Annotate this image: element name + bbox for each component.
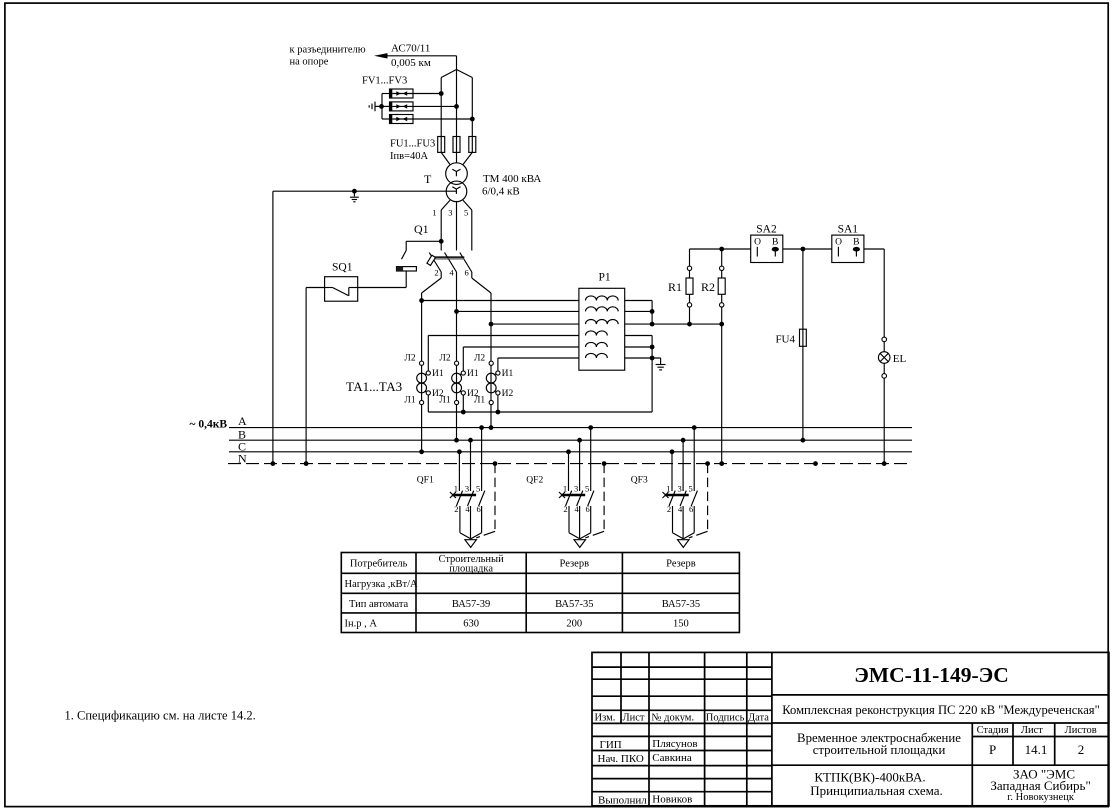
svg-text:QF3: QF3	[631, 476, 648, 486]
svg-text:Т: Т	[424, 172, 432, 186]
svg-text:R2: R2	[701, 280, 715, 294]
svg-text:Тип автомата: Тип автомата	[349, 599, 409, 610]
svg-text:SQ1: SQ1	[332, 262, 353, 274]
svg-text:на опоре: на опоре	[290, 57, 329, 68]
svg-text:Дата: Дата	[748, 713, 769, 724]
svg-text:5: 5	[464, 208, 468, 218]
svg-text:6: 6	[465, 268, 469, 278]
svg-text:200: 200	[566, 619, 582, 630]
svg-text:Резерв: Резерв	[666, 559, 696, 570]
svg-text:г. Новокузнецк: г. Новокузнецк	[1007, 792, 1075, 803]
svg-text:Iн.р , А: Iн.р , А	[345, 619, 378, 630]
svg-text:150: 150	[673, 619, 689, 630]
svg-text:14.1: 14.1	[1025, 742, 1048, 757]
svg-text:Резерв: Резерв	[560, 559, 590, 570]
svg-text:ЭМС-11-149-ЭС: ЭМС-11-149-ЭС	[854, 663, 1009, 687]
svg-text:Западная Сибирь": Западная Сибирь"	[990, 778, 1090, 793]
svg-text:Подпись: Подпись	[706, 713, 745, 724]
svg-text:Q1: Q1	[414, 222, 429, 236]
svg-text:Лист: Лист	[623, 713, 645, 724]
svg-text:QF1: QF1	[417, 476, 434, 486]
svg-text:FU1...FU3: FU1...FU3	[390, 139, 435, 150]
svg-text:FV1...FV3: FV1...FV3	[362, 76, 407, 87]
svg-text:ГИП: ГИП	[600, 739, 622, 751]
svg-text:QF2: QF2	[526, 476, 543, 486]
svg-text:Р1: Р1	[599, 272, 611, 284]
svg-text:Новиков: Новиков	[652, 793, 692, 805]
svg-text:Потребитель: Потребитель	[350, 559, 408, 570]
svg-text:А: А	[238, 414, 247, 428]
svg-text:1: 1	[432, 208, 436, 218]
svg-text:2: 2	[454, 504, 458, 514]
svg-text:площадка: площадка	[449, 563, 493, 574]
svg-text:3: 3	[465, 484, 469, 494]
svg-text:О: О	[754, 238, 761, 248]
svg-text:630: 630	[463, 619, 479, 630]
svg-text:SA1: SA1	[838, 223, 859, 235]
svg-text:Плясунов: Плясунов	[652, 738, 697, 750]
svg-text:Листов: Листов	[1065, 725, 1097, 736]
svg-text:4: 4	[465, 504, 470, 514]
svg-text:ВА57-35: ВА57-35	[555, 599, 593, 610]
svg-text:Iпв=40А: Iпв=40А	[390, 151, 428, 162]
svg-text:6/0,4 кВ: 6/0,4 кВ	[482, 186, 520, 198]
svg-text:6: 6	[476, 504, 480, 514]
svg-text:ВА57-39: ВА57-39	[452, 599, 490, 610]
svg-text:Выполнил: Выполнил	[598, 794, 647, 806]
svg-text:ВА57-35: ВА57-35	[662, 599, 700, 610]
svg-text:ТМ 400 кВА: ТМ 400 кВА	[483, 173, 541, 185]
svg-text:Комплексная реконструкция ПС 2: Комплексная реконструкция ПС 220 кВ "Меж…	[782, 703, 1100, 717]
svg-text:SA2: SA2	[756, 223, 777, 235]
svg-text:2: 2	[1078, 742, 1085, 757]
svg-text:Л2: Л2	[404, 354, 415, 364]
svg-text:Лист: Лист	[1021, 725, 1043, 736]
svg-text:~ 0,4кВ: ~ 0,4кВ	[190, 419, 228, 431]
svg-text:И1: И1	[432, 369, 444, 379]
svg-text:2: 2	[434, 268, 438, 278]
svg-text:Нагрузка ,кВт/А: Нагрузка ,кВт/А	[345, 579, 419, 590]
svg-text:4: 4	[449, 268, 454, 278]
svg-text:Изм.: Изм.	[595, 713, 616, 724]
svg-text:№ докум.: № докум.	[652, 713, 695, 724]
svg-text:Л1: Л1	[404, 396, 415, 406]
svg-text:FU4: FU4	[775, 334, 795, 346]
svg-text:EL: EL	[893, 353, 907, 365]
svg-text:Нач. ПКО: Нач. ПКО	[598, 753, 644, 765]
svg-text:1. Спецификацию см. на листе 1: 1. Спецификацию см. на листе 14.2.	[65, 709, 256, 723]
svg-text:АС70/11: АС70/11	[391, 43, 430, 55]
svg-text:Р: Р	[989, 742, 996, 757]
svg-text:R1: R1	[668, 280, 682, 294]
svg-text:5: 5	[476, 484, 480, 494]
svg-text:ТА1...ТА3: ТА1...ТА3	[346, 379, 402, 394]
svg-text:к разъединителю: к разъединителю	[290, 45, 366, 56]
svg-text:строительной площадки: строительной площадки	[813, 743, 946, 757]
svg-text:В: В	[772, 238, 778, 248]
svg-text:Принципиальная схема.: Принципиальная схема.	[810, 783, 943, 798]
svg-text:3: 3	[448, 208, 452, 218]
svg-text:Стадия: Стадия	[977, 725, 1009, 736]
svg-text:Савкина: Савкина	[652, 752, 692, 764]
svg-text:0,005 км: 0,005 км	[391, 57, 431, 69]
